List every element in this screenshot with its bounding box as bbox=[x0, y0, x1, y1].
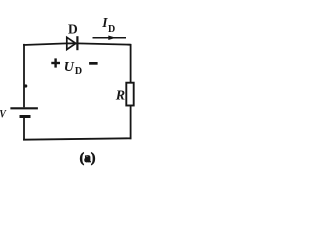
svg-text:D: D bbox=[108, 24, 115, 35]
svg-text:D: D bbox=[75, 66, 82, 77]
svg-text:U: U bbox=[64, 60, 75, 75]
svg-text:R: R bbox=[115, 89, 125, 104]
svg-text:D: D bbox=[68, 22, 78, 37]
svg-text:V: V bbox=[0, 107, 7, 121]
